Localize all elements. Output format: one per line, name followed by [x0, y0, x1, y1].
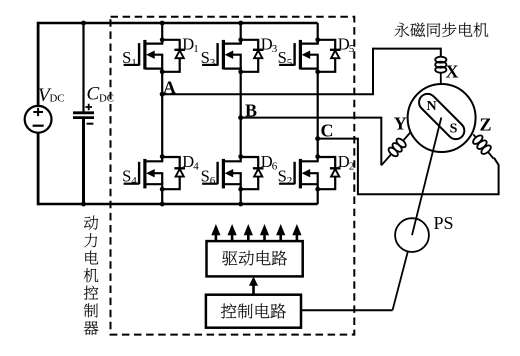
gate drive arrow 5	[276, 224, 285, 241]
transistor S6	[202, 157, 241, 190]
wire top bus	[38, 22, 318, 24]
transistor S2	[279, 157, 318, 190]
wire leg2 lower (node B to S6)	[240, 118, 242, 157]
svg-text:4: 4	[193, 160, 199, 172]
svg-text:Z: Z	[480, 115, 492, 135]
junction S1 source node	[160, 69, 165, 74]
wire bottom bus	[38, 203, 318, 205]
label 动力电机控制器 (motor controller)	[84, 216, 99, 335]
junction S6 drain node	[238, 154, 243, 159]
winding Z coil	[469, 131, 498, 162]
junction S2 drain node	[315, 154, 320, 159]
junction S3 drain node	[238, 37, 243, 42]
junction S5 source node	[315, 69, 320, 74]
gate drive arrow 1	[211, 224, 220, 241]
wire leg3 lower (node C to S2)	[317, 139, 319, 157]
controller dashed box	[111, 17, 355, 335]
winding X coil	[435, 55, 446, 84]
svg-text:1: 1	[131, 57, 137, 69]
transistor S3	[202, 40, 241, 72]
transistor S1	[124, 40, 163, 72]
svg-text:1: 1	[193, 43, 199, 55]
node B	[238, 115, 243, 120]
drive circuit box	[207, 241, 303, 276]
junction S1 drain node	[160, 37, 165, 42]
svg-text:X: X	[446, 62, 459, 82]
junction bottom bus / capacitor	[81, 202, 86, 207]
svg-text:N: N	[426, 99, 436, 114]
diode D2	[318, 157, 341, 189]
node C	[315, 136, 320, 141]
control circuit box	[206, 295, 301, 328]
gate drive arrow 4	[260, 224, 269, 241]
svg-text:S: S	[201, 167, 210, 186]
junction top bus leg2	[238, 21, 243, 26]
motor stator circle	[408, 84, 476, 152]
junction S5 drain node	[315, 37, 320, 42]
label 永磁同步电机 (PMSM)	[395, 23, 489, 37]
svg-text:PS: PS	[434, 213, 454, 233]
diode D1	[162, 40, 185, 72]
gate drive arrow 6	[292, 224, 301, 241]
transistor S5	[279, 40, 318, 72]
diode D4	[162, 157, 185, 189]
wire leg3 top stub	[317, 23, 319, 44]
rotor magnet capsule	[416, 90, 468, 142]
wire leg2 mid (S3 source to node B)	[240, 72, 242, 118]
svg-text:S: S	[122, 48, 131, 67]
wire leg1 mid (S1 source to node A)	[161, 72, 163, 94]
shaft / sensor line (motor to PS)	[412, 118, 441, 236]
voltage source VDC	[25, 106, 52, 133]
svg-text:Y: Y	[394, 114, 407, 134]
wire leg1 lower (node A to S4)	[161, 94, 163, 156]
wire phase C	[318, 139, 499, 195]
svg-text:C: C	[87, 84, 100, 105]
wire left rail bottom	[37, 133, 40, 206]
diode D5	[318, 40, 341, 72]
node A	[160, 92, 165, 97]
wire leg2 bottom (S6 to bus)	[240, 189, 242, 204]
wire left rail top	[37, 22, 40, 106]
junction top bus leg1	[160, 21, 165, 26]
wire leg3 mid (S5 source to node C)	[317, 72, 319, 139]
position sensor PS	[395, 218, 429, 252]
junction bottom bus leg1	[160, 202, 165, 207]
junction S4 source node	[160, 187, 165, 192]
svg-text:3: 3	[210, 57, 216, 69]
wire control circuit to position sensor	[301, 309, 393, 311]
junction S2 source node	[315, 187, 320, 192]
svg-text:4: 4	[131, 175, 137, 187]
junction S6 source node	[238, 187, 243, 192]
gate drive arrow 3	[244, 224, 253, 241]
wire phase B	[241, 118, 382, 166]
svg-text:6: 6	[210, 175, 216, 187]
wire leg1 top stub	[161, 23, 163, 44]
capacitor CDC	[73, 22, 94, 205]
label 驱动电路 (drive circuit)	[222, 250, 287, 265]
wire leg1 bottom (S4 to bus)	[161, 189, 163, 204]
junction top bus / capacitor	[81, 21, 86, 26]
gate drive arrow 2	[228, 224, 237, 241]
label 控制电路 (control circuit)	[221, 303, 286, 318]
wire leg3 bottom (S2 to bus)	[317, 189, 319, 204]
svg-text:S: S	[450, 122, 458, 137]
svg-text:C: C	[321, 121, 334, 141]
svg-text:S: S	[122, 167, 131, 186]
svg-text:DC: DC	[99, 92, 114, 104]
svg-text:S: S	[278, 48, 287, 67]
junction S3 source node	[238, 69, 243, 74]
winding Y coil	[377, 128, 415, 169]
diode D3	[241, 40, 264, 72]
svg-text:S: S	[201, 48, 210, 67]
svg-text:5: 5	[287, 57, 293, 69]
svg-text:2: 2	[287, 175, 293, 187]
wire phase A	[162, 49, 441, 95]
svg-text:2: 2	[349, 160, 355, 172]
transistor S4	[124, 157, 163, 190]
junction S4 drain node	[160, 154, 165, 159]
arrow control to drive	[249, 276, 258, 294]
junction bottom bus leg2	[238, 202, 243, 207]
svg-text:DC: DC	[50, 92, 65, 104]
svg-text:S: S	[278, 167, 287, 186]
svg-text:5: 5	[349, 43, 355, 55]
diode D6	[241, 157, 264, 189]
wire leg2 top stub	[240, 23, 242, 44]
wire PS to control line	[393, 252, 408, 311]
